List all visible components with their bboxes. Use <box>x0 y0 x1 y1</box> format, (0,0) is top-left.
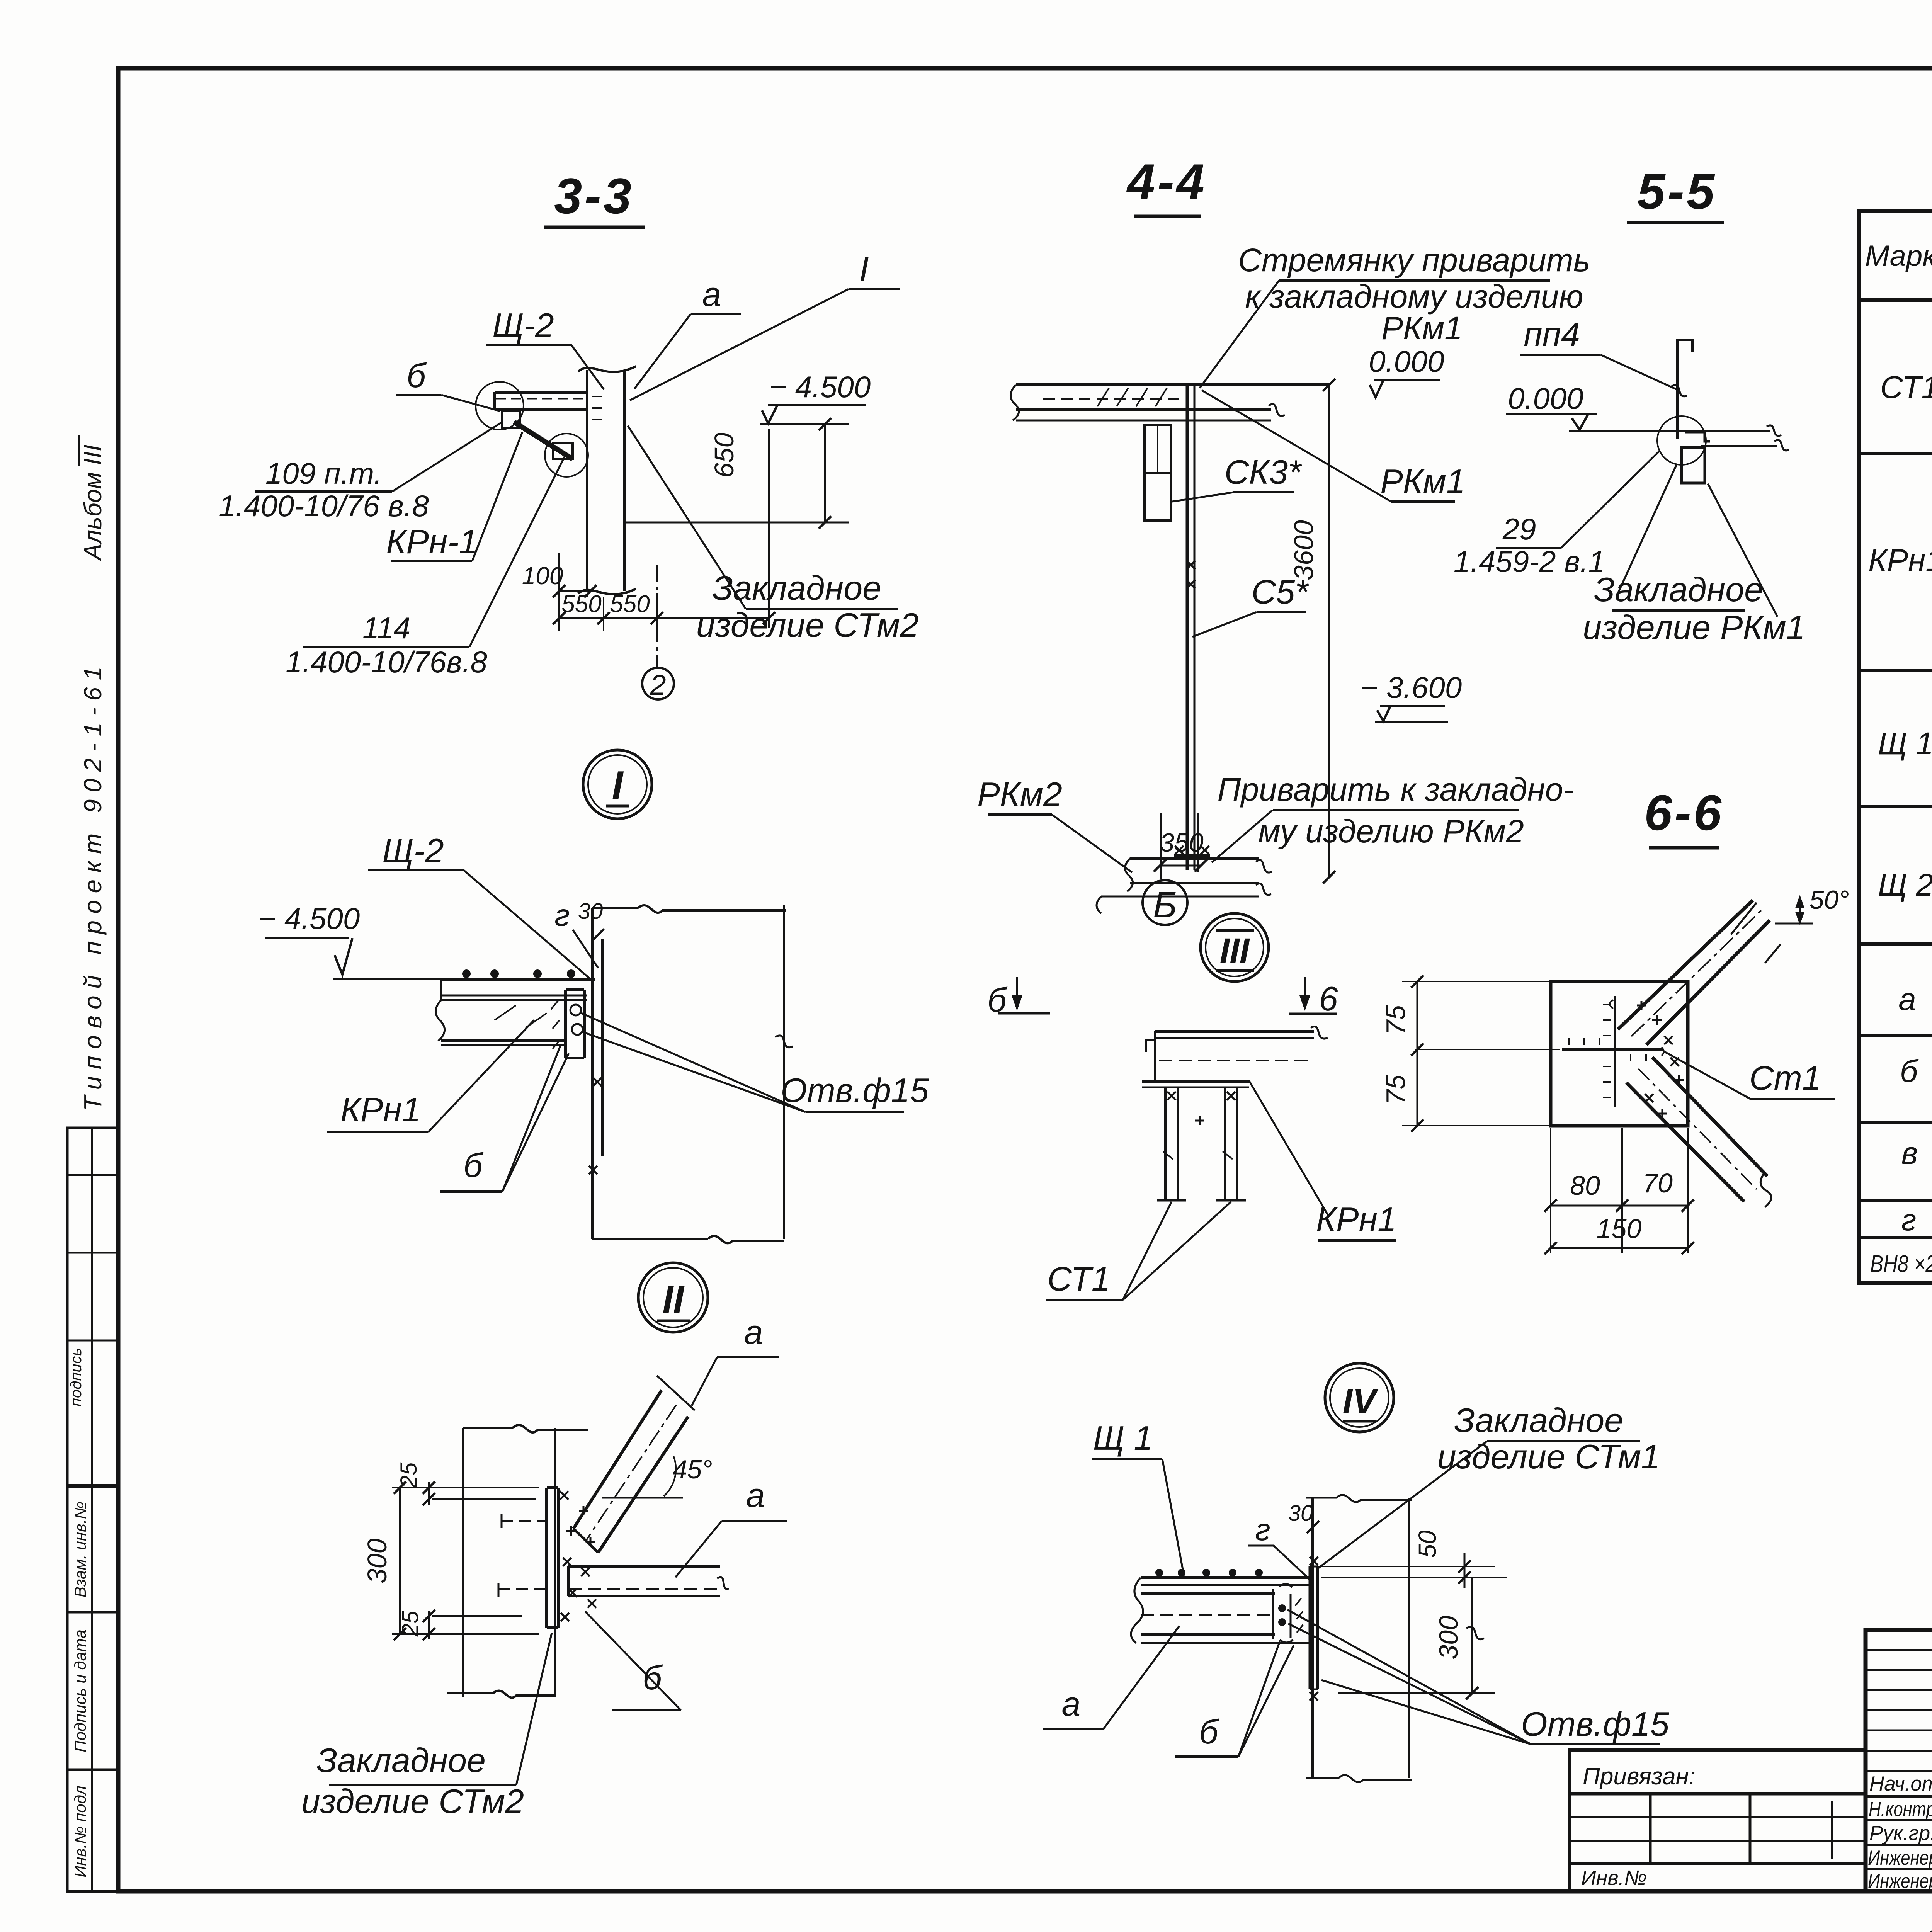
svg-text:Б: Б <box>1153 884 1177 925</box>
svg-text:подпись: подпись <box>68 1348 85 1406</box>
svg-text:Щ 2: Щ 2 <box>1878 867 1932 903</box>
svg-text:1.400-10/76в.8: 1.400-10/76в.8 <box>286 645 487 679</box>
svg-text:Стремянку приварить: Стремянку приварить <box>1238 242 1590 278</box>
svg-text:I: I <box>859 250 869 289</box>
svg-text:Инв.№: Инв.№ <box>1581 1866 1647 1889</box>
svg-text:а: а <box>1062 1685 1081 1723</box>
svg-text:Щ-2: Щ-2 <box>382 832 444 870</box>
svg-text:Альбом III: Альбом III <box>79 444 107 561</box>
svg-text:Типовой проект 902-1-61: Типовой проект 902-1-61 <box>79 667 107 1111</box>
svg-text:Рук.гр.: Рук.гр. <box>1869 1822 1932 1845</box>
svg-text:а: а <box>746 1476 765 1514</box>
svg-text:Инженер: Инженер <box>1868 1870 1932 1893</box>
svg-text:30: 30 <box>1288 1501 1313 1526</box>
svg-text:РКм1: РКм1 <box>1381 310 1463 346</box>
svg-text:− 3.600: − 3.600 <box>1361 670 1462 704</box>
svg-text:80: 80 <box>1570 1170 1600 1201</box>
svg-text:а: а <box>702 275 721 313</box>
svg-text:IV: IV <box>1343 1382 1379 1421</box>
svg-text:изделие РКм1: изделие РКм1 <box>1583 608 1805 646</box>
svg-text:0.000: 0.000 <box>1508 381 1583 415</box>
svg-text:Приварить к закладно-: Приварить к закладно- <box>1218 771 1574 808</box>
svg-text:пп4: пп4 <box>1524 315 1580 354</box>
svg-text:Инв.№ подл: Инв.№ подл <box>71 1786 89 1877</box>
svg-text:б: б <box>1900 1054 1919 1089</box>
svg-text:3600: 3600 <box>1289 520 1319 580</box>
svg-text:50°: 50° <box>1810 885 1849 915</box>
svg-text:Отв.ф15: Отв.ф15 <box>781 1071 929 1109</box>
svg-text:РКм2: РКм2 <box>977 775 1062 813</box>
svg-text:550: 550 <box>561 591 601 617</box>
svg-text:III: III <box>1220 931 1250 971</box>
svg-text:100: 100 <box>522 562 563 590</box>
svg-text:18301-01: 18301-01 <box>1918 1917 1932 1932</box>
svg-text:Щ 1: Щ 1 <box>1878 726 1932 761</box>
svg-text:РКм1: РКм1 <box>1380 462 1465 500</box>
svg-text:75: 75 <box>1381 1074 1411 1105</box>
svg-text:− 4.500: − 4.500 <box>259 901 360 935</box>
svg-text:изделие СТм2: изделие СТм2 <box>696 606 919 644</box>
svg-text:в: в <box>1901 1136 1918 1171</box>
svg-text:300: 300 <box>1434 1616 1463 1660</box>
svg-text:I: I <box>612 763 624 808</box>
svg-text:30: 30 <box>578 899 603 924</box>
svg-text:Нач.отд.: Нач.отд. <box>1869 1772 1932 1795</box>
svg-text:СК3*: СК3* <box>1225 453 1302 491</box>
svg-text:25: 25 <box>396 1462 422 1488</box>
svg-text:50: 50 <box>1413 1530 1441 1558</box>
svg-text:Ст1: Ст1 <box>1749 1059 1821 1097</box>
svg-text:300: 300 <box>362 1539 392 1584</box>
svg-text:г: г <box>1901 1203 1916 1237</box>
svg-text:29: 29 <box>1502 512 1536 546</box>
svg-text:45°: 45° <box>673 1455 713 1484</box>
svg-text:б: б <box>406 356 427 395</box>
svg-text:КРн1: КРн1 <box>1316 1200 1396 1238</box>
svg-text:109 п.т.: 109 п.т. <box>265 456 382 490</box>
svg-text:а: а <box>1898 982 1916 1017</box>
svg-text:Закладное: Закладное <box>1454 1401 1623 1439</box>
svg-text:СТ1: СТ1 <box>1047 1260 1110 1298</box>
svg-text:Отв.ф15: Отв.ф15 <box>1521 1705 1670 1743</box>
svg-text:г: г <box>1255 1512 1270 1547</box>
svg-text:Щ 1: Щ 1 <box>1093 1419 1153 1457</box>
svg-text:− 4.500: − 4.500 <box>769 370 871 404</box>
svg-text:3-3: 3-3 <box>554 168 634 224</box>
svg-text:б: б <box>643 1658 663 1697</box>
svg-text:ВН8 ×23: ВН8 ×23 <box>1870 1251 1932 1277</box>
svg-text:изделие СТм2: изделие СТм2 <box>301 1782 524 1820</box>
svg-text:114: 114 <box>362 611 410 645</box>
svg-text:350: 350 <box>1160 828 1204 857</box>
svg-text:650: 650 <box>709 433 739 478</box>
svg-text:б: б <box>1199 1713 1219 1751</box>
svg-text:75: 75 <box>1381 1005 1411 1035</box>
svg-text:4-4: 4-4 <box>1126 153 1207 210</box>
svg-text:Инженер: Инженер <box>1868 1847 1932 1869</box>
svg-text:му изделию РКм2: му изделию РКм2 <box>1258 813 1524 849</box>
svg-text:150: 150 <box>1597 1214 1642 1244</box>
svg-text:5-5: 5-5 <box>1637 163 1717 219</box>
svg-text:к закладному изделию: к закладному изделию <box>1245 278 1583 315</box>
svg-text:КРн-1: КРн-1 <box>386 522 478 561</box>
svg-text:25: 25 <box>397 1611 423 1637</box>
svg-text:Взам. инв.№: Взам. инв.№ <box>71 1502 89 1597</box>
svg-text:б: б <box>463 1146 484 1184</box>
svg-text:2: 2 <box>650 669 666 701</box>
svg-text:1.400-10/76 в.8: 1.400-10/76 в.8 <box>219 489 429 523</box>
svg-text:изделие СТм1: изделие СТм1 <box>1437 1437 1660 1476</box>
svg-text:6-6: 6-6 <box>1644 784 1724 841</box>
svg-text:Подпись и дата: Подпись и дата <box>71 1629 89 1752</box>
svg-text:Привязан:: Привязан: <box>1583 1763 1696 1790</box>
svg-text:Н.контр.: Н.контр. <box>1869 1798 1932 1821</box>
svg-text:КРн1: КРн1 <box>340 1090 421 1129</box>
svg-text:КРн1: КРн1 <box>1868 543 1932 578</box>
svg-text:6: 6 <box>1319 980 1338 1018</box>
svg-text:г: г <box>554 898 570 932</box>
svg-text:Щ-2: Щ-2 <box>492 306 554 344</box>
svg-text:70: 70 <box>1643 1168 1673 1198</box>
svg-text:Закладное: Закладное <box>712 569 881 607</box>
svg-text:Марка: Марка <box>1865 240 1932 272</box>
svg-text:Закладное: Закладное <box>316 1741 486 1779</box>
svg-text:550: 550 <box>610 591 650 617</box>
svg-text:СТ1: СТ1 <box>1880 370 1932 405</box>
svg-text:II: II <box>662 1278 685 1321</box>
svg-text:1.459-2 в.1: 1.459-2 в.1 <box>1454 544 1605 578</box>
svg-text:а: а <box>744 1313 763 1351</box>
svg-text:С5*: С5* <box>1252 573 1309 611</box>
svg-text:0.000: 0.000 <box>1369 344 1444 378</box>
